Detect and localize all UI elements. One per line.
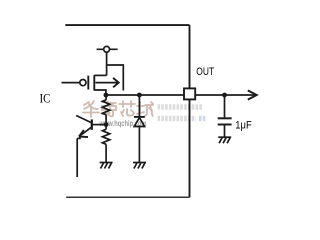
svg-text:OUT: OUT — [196, 66, 214, 78]
svg-text:1μF: 1μF — [235, 120, 252, 132]
svg-text:IC: IC — [40, 92, 51, 106]
